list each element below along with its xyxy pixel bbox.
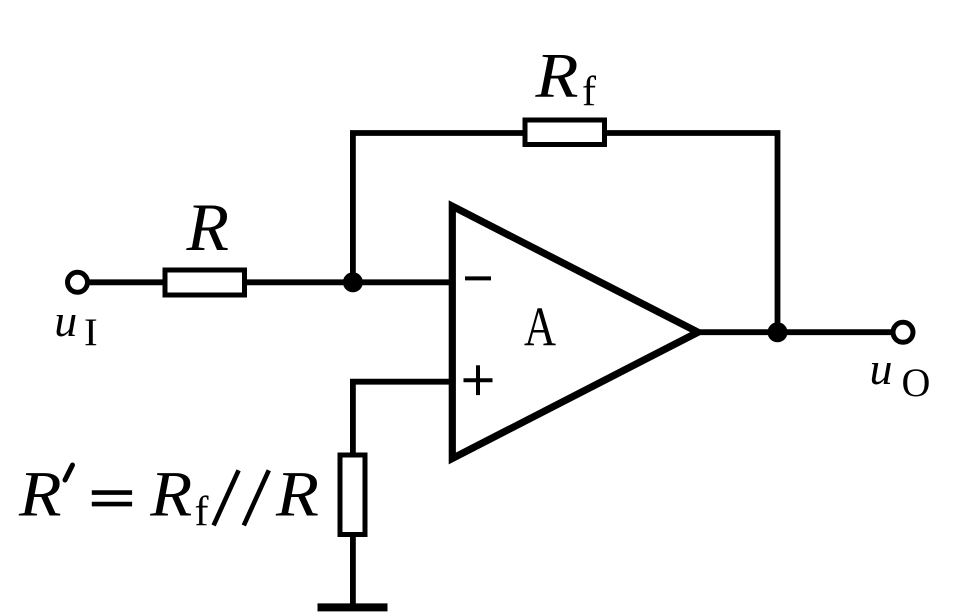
node B (output junction) [768, 322, 788, 342]
op-amp inverting input minus sign [465, 276, 491, 280]
svg-text:u: u [54, 295, 77, 346]
wire non-inverting input to node B [353, 382, 452, 456]
svg-text:f: f [582, 69, 596, 115]
resistor R [165, 270, 245, 295]
op-amp non-inverting input plus sign [464, 378, 493, 382]
svg-text:f: f [195, 489, 209, 535]
svg-text:u: u [870, 343, 893, 394]
label R' = Rf//R [18, 459, 319, 536]
svg-text:R: R [275, 459, 319, 531]
op-amp A triangle [452, 206, 698, 458]
svg-text:R: R [149, 459, 192, 531]
wire feedback loop: up from node A, across top, down to output node [353, 133, 778, 332]
node A (inverting input junction) [343, 272, 363, 292]
wire resistor R' to ground [350, 534, 356, 605]
ground [318, 603, 388, 611]
resistor R' (vertical) [340, 455, 365, 535]
output terminal circle [893, 322, 913, 342]
wire op-amp output to output terminal [700, 329, 891, 335]
input terminal circle [68, 272, 88, 292]
svg-text:A: A [524, 296, 556, 358]
svg-text:O: O [902, 360, 931, 405]
resistor Rf [525, 120, 605, 145]
wire resistor R to inverting input [245, 279, 452, 285]
svg-text:R: R [534, 40, 578, 111]
svg-text:I: I [84, 311, 98, 354]
svg-text:R: R [18, 459, 62, 531]
svg-text:R: R [185, 189, 229, 265]
wire input terminal to resistor R [89, 279, 166, 285]
